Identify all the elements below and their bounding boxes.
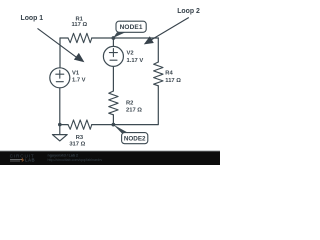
svg-text:217 Ω: 217 Ω: [126, 108, 142, 114]
wire V2 top: [112, 38, 114, 46]
wire right column top: [157, 38, 159, 62]
svg-text:V1: V1: [72, 71, 80, 77]
node label NODE2: [114, 125, 148, 144]
ground: [52, 135, 67, 141]
footer bar: [0, 151, 220, 166]
node junction ground: [58, 123, 62, 127]
svg-text:R2: R2: [126, 100, 133, 106]
wire R3 to NODE2: [92, 124, 114, 126]
svg-text:NODE1: NODE1: [120, 24, 143, 31]
resistor R1: [68, 33, 92, 42]
svg-text:http://circuitlab.com/cpq/fabl: http://circuitlab.com/cpq/fablnardrv: [48, 158, 103, 162]
wire top left: [60, 37, 68, 39]
wire V1 bottom to ground: [59, 88, 61, 135]
loop 2 arrow: [144, 18, 189, 45]
resistor R4: [154, 62, 163, 86]
node junction NODE2: [112, 123, 116, 127]
svg-text:117 Ω: 117 Ω: [165, 78, 181, 84]
svg-text:R3: R3: [76, 135, 84, 141]
wire right column bottom: [113, 86, 158, 125]
voltage source V2: [103, 46, 123, 66]
svg-text:Loop 1: Loop 1: [21, 15, 44, 22]
wire bottom left: [60, 124, 68, 126]
voltage source V1: [50, 68, 70, 88]
wire R2 bottom: [112, 115, 114, 125]
wire top right: [92, 37, 159, 39]
svg-text:LAB: LAB: [25, 158, 35, 163]
svg-text:NODE2: NODE2: [124, 136, 146, 143]
wire V2 bottom to R2: [112, 67, 114, 91]
node label NODE1: [113, 21, 146, 38]
svg-text:Loop 2: Loop 2: [177, 8, 200, 15]
wire left column: [59, 38, 61, 68]
svg-text:1.7 V: 1.7 V: [72, 78, 86, 84]
node junction NODE1: [112, 36, 116, 40]
loop 1 arrow: [38, 28, 85, 62]
resistor R3: [68, 120, 92, 129]
svg-text:R4: R4: [165, 71, 173, 77]
svg-text:1.17 V: 1.17 V: [127, 58, 144, 64]
svg-text:317 Ω: 317 Ω: [69, 141, 85, 147]
svg-text:117 Ω: 117 Ω: [71, 22, 87, 28]
svg-text:V2: V2: [127, 50, 134, 56]
resistor R2: [109, 91, 118, 115]
